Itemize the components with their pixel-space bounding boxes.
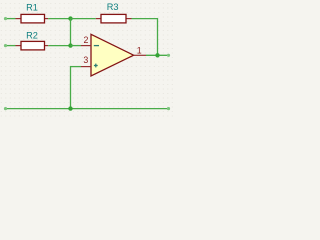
wire end marker bottom left — [4, 107, 7, 110]
wire node A to node B vertical — [70, 19, 72, 46]
junction node B — [68, 43, 72, 47]
resistor R2 — [16, 41, 49, 50]
svg-text:1: 1 — [137, 45, 142, 55]
op-amp inverting input minus sign — [94, 45, 99, 47]
wire end marker bottom right — [167, 107, 170, 110]
wire R2 to node B — [48, 45, 70, 47]
wire pin3 corner down to node D — [70, 66, 72, 109]
svg-text:R3: R3 — [107, 2, 119, 12]
wire left input to R1 pin — [6, 18, 16, 20]
svg-text:3: 3 — [83, 55, 88, 65]
junction node A — [68, 16, 72, 20]
op-amp non-inverting input plus sign — [94, 64, 98, 68]
wire R1 to node A — [48, 18, 70, 20]
wire op-amp output to node C — [146, 54, 169, 56]
resistor R3 — [96, 14, 132, 23]
wire node A to R3 pin — [71, 18, 96, 20]
wire end marker input 1 — [4, 17, 7, 20]
wire left input to R2 pin — [6, 45, 16, 47]
wire node B to op-amp pin 2 — [71, 45, 82, 47]
op-amp U1 — [81, 34, 146, 76]
wire feedback vertical — [157, 18, 159, 55]
wire end marker input 2 — [4, 44, 7, 47]
junction node D — [68, 106, 72, 110]
svg-text:R2: R2 — [26, 30, 38, 40]
wire op-amp pin 3 to corner — [71, 66, 82, 68]
wire bottom rail — [6, 108, 169, 110]
wire R3 to feedback corner — [132, 18, 158, 20]
wire end marker output — [167, 54, 170, 57]
resistor R1 — [16, 14, 49, 23]
svg-text:R1: R1 — [26, 2, 38, 12]
svg-text:2: 2 — [84, 35, 89, 45]
junction node C — [155, 53, 159, 57]
